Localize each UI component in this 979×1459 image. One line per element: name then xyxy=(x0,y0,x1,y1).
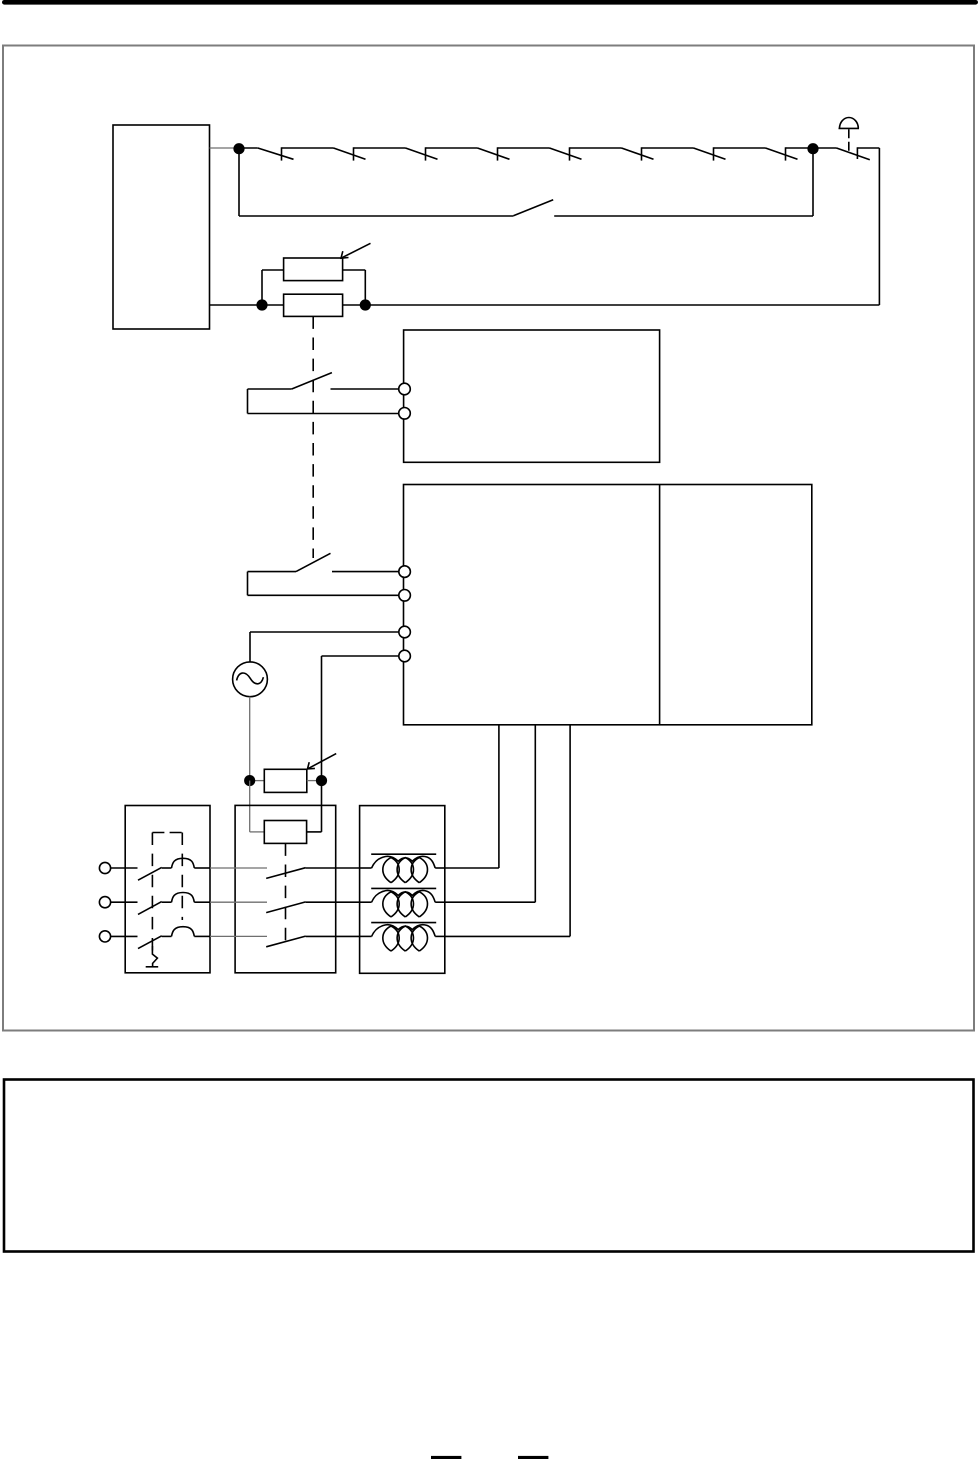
wire U3 drop 3 xyxy=(569,725,571,937)
diagram frame xyxy=(3,46,974,1031)
wire down to N4 xyxy=(364,270,366,305)
switch S1 (interlock contact) xyxy=(239,147,334,160)
wire CB1 to MC1 row 2 xyxy=(210,901,267,903)
linkage dashed line R4 to MC1 contacts xyxy=(285,843,287,941)
wire right drop N2 loop xyxy=(878,148,880,305)
wire K1 to node N4 xyxy=(343,304,366,306)
relay coil K1 (box symbol) xyxy=(284,294,343,316)
divider of U3 xyxy=(659,485,661,725)
variable resistor R3 xyxy=(264,769,307,792)
node N1 junction xyxy=(233,143,244,154)
power unit box U3 xyxy=(404,485,812,725)
switch S7 (interlock contact) xyxy=(694,147,766,160)
wire into R4 right xyxy=(307,831,322,833)
input terminal L3 xyxy=(99,931,110,942)
node N3 junction xyxy=(256,299,267,310)
wire pin4 right segment xyxy=(322,655,399,657)
trip spring symbol of CB1 xyxy=(146,946,159,967)
arrow of variable resistor R1 xyxy=(341,243,371,258)
footer dash right xyxy=(518,1456,548,1459)
switch S9 (emergency stop contact) xyxy=(813,147,879,160)
amplifier box U2 xyxy=(404,330,660,462)
switch S3 (interlock contact) xyxy=(406,147,478,160)
transformer box T1 xyxy=(360,806,445,974)
arrow of variable resistor R3 xyxy=(308,754,337,769)
switch S6 (interlock contact) xyxy=(622,147,694,160)
wire L2 into CB1 xyxy=(111,901,138,903)
terminal pin 1 of U3 xyxy=(399,566,411,578)
relay contact K1-b (to power supply) xyxy=(248,553,400,595)
contactor pole MC1-2 xyxy=(266,902,359,913)
wire up to N2 xyxy=(812,149,814,216)
wire R1 to right xyxy=(343,269,366,271)
wire T1 row 3 to drop xyxy=(445,935,570,937)
transformer winding T1-2 xyxy=(360,888,445,917)
wire T1 row 1 to drop xyxy=(445,867,499,869)
terminal pin 2 of U2 xyxy=(399,408,411,420)
wire into R4 left xyxy=(250,831,265,833)
wire G1 to node N5 xyxy=(249,697,251,781)
magnetic contactor box MC1 xyxy=(235,805,336,972)
relay contact K1-a (to amplifier) xyxy=(248,373,400,414)
wire U3 drop 1 xyxy=(498,725,500,868)
node N2 junction xyxy=(807,143,818,154)
contactor pole MC1-3 xyxy=(266,936,359,947)
wire U3 drop 2 xyxy=(534,725,536,902)
node N6 junction xyxy=(316,775,327,786)
switch S8 (interlock contact) xyxy=(766,147,814,160)
wire U1 to node N3 xyxy=(210,304,263,306)
input terminal L2 xyxy=(99,897,110,908)
trip linkage dashed frame of CB1 xyxy=(152,833,182,952)
wire N5 down to R4 xyxy=(249,781,251,832)
switch S4 (interlock contact) xyxy=(478,147,550,160)
wire L3 into CB1 xyxy=(111,935,138,937)
variable resistor R1 xyxy=(284,258,343,281)
wire N3 to R2 xyxy=(262,304,284,306)
switch S5 (interlock contact) xyxy=(550,147,622,160)
wire U1 to node N1 xyxy=(210,147,240,149)
wire pin3 to AC source xyxy=(250,631,399,633)
coil R4 of contactor MC1 xyxy=(264,821,306,844)
switch S2 (interlock contact) xyxy=(334,147,406,160)
terminal pin 2 of U3 xyxy=(399,590,411,602)
contactor pole MC1-1 xyxy=(266,868,359,879)
wire CB1 to MC1 row 3 xyxy=(210,935,267,937)
input terminal L1 xyxy=(99,862,110,873)
breaker pole CB1-2 (contact and thermal element) xyxy=(138,893,210,915)
node N4 junction xyxy=(360,299,371,310)
AC source G1 xyxy=(233,662,268,697)
control unit box U1 xyxy=(113,125,210,329)
wire L1 into CB1 xyxy=(111,867,138,869)
switch S10 (bypass contact) xyxy=(513,200,813,216)
wire N6 down to R4 xyxy=(321,781,323,832)
note box frame xyxy=(4,1080,974,1252)
terminal pin 4 of U3 xyxy=(399,650,411,662)
wire CB1 to MC1 row 1 xyxy=(210,867,267,869)
wire bypass left segment xyxy=(239,215,513,217)
circuit breaker box CB1 xyxy=(125,806,210,973)
terminal pin 1 of U2 xyxy=(399,383,411,395)
wire to R1 xyxy=(262,269,284,271)
terminal pin 3 of U3 xyxy=(399,626,411,638)
wire N3 up xyxy=(261,270,263,305)
transformer winding T1-1 xyxy=(360,854,445,883)
footer dash left xyxy=(431,1456,461,1459)
emergency stop button SB1 (mushroom head) xyxy=(839,117,860,152)
wire N1 down xyxy=(238,149,240,216)
top rule bar xyxy=(2,0,978,5)
node N5 junction xyxy=(244,775,255,786)
wire pin4 down to node N6 xyxy=(321,656,323,781)
wire R3 to N6 xyxy=(307,780,322,782)
breaker pole CB1-1 (contact and thermal element) xyxy=(138,858,210,880)
wire bottom return to node N4 xyxy=(365,304,879,306)
wire N5 to R3 xyxy=(250,780,265,782)
breaker pole CB1-3 (contact and thermal element) xyxy=(138,927,210,949)
transformer winding T1-3 xyxy=(360,923,445,952)
wire T1 row 2 to drop xyxy=(445,901,536,903)
linkage dashed line K1 to contacts xyxy=(312,316,314,558)
wire down to G1 xyxy=(249,632,251,662)
